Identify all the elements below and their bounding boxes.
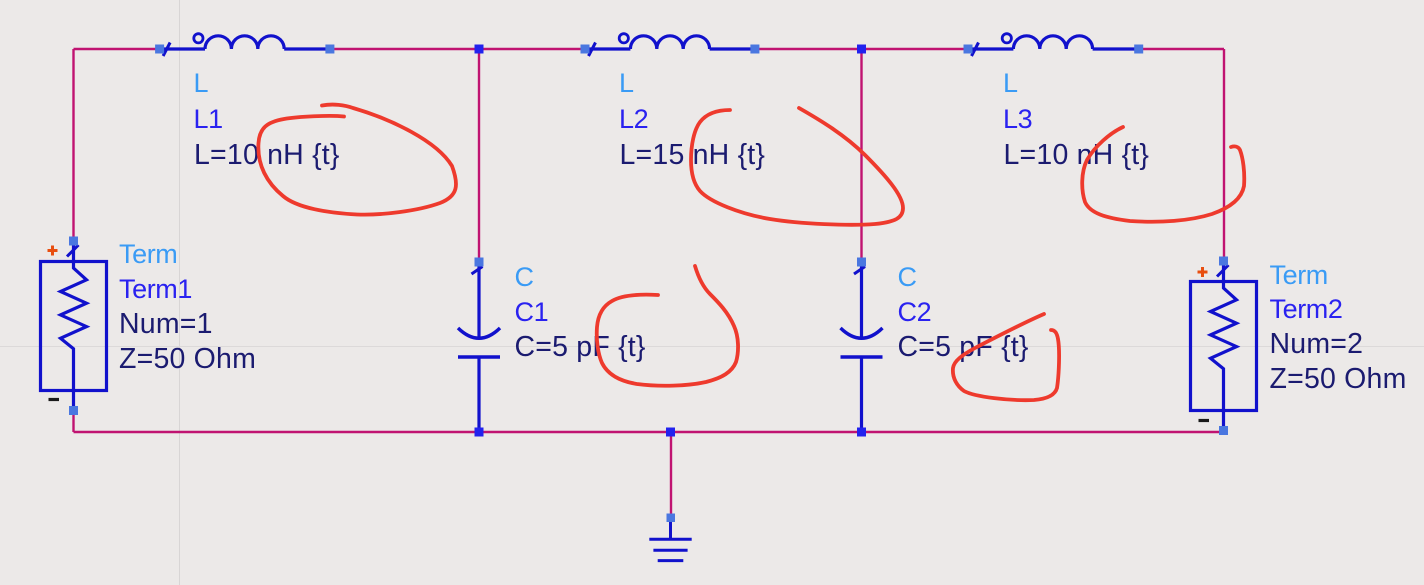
ground	[649, 518, 691, 561]
node junction bottom C2	[857, 428, 866, 437]
inductor L1	[160, 34, 330, 56]
node junction bottom C1	[475, 428, 484, 437]
ground pin square	[667, 514, 676, 523]
Term2 pin 2 square	[1219, 426, 1228, 435]
C2 labels	[898, 262, 1029, 363]
red annotation circle C2 value	[953, 314, 1059, 400]
svg-text:Z=50 Ohm: Z=50 Ohm	[1270, 363, 1407, 395]
wire Term1 bottom stub	[72, 410, 74, 432]
grid line horizontal	[0, 346, 1424, 348]
Term1 minus sign	[49, 398, 60, 401]
red annotation circle C1 value	[597, 266, 738, 386]
L3 labels	[1003, 68, 1149, 171]
node junction bottom ground	[666, 428, 675, 437]
C1 labels	[515, 262, 646, 363]
svg-text:L: L	[1003, 68, 1018, 98]
node junction top C2	[857, 45, 866, 54]
terminal Term1	[41, 241, 107, 411]
svg-text:C=5 pF {t}: C=5 pF {t}	[898, 331, 1029, 363]
C1 pin 1 square	[475, 258, 484, 267]
svg-text:C=5 pF {t}: C=5 pF {t}	[515, 331, 646, 363]
svg-text:L: L	[619, 68, 634, 98]
wire L3 to top-right corner	[1138, 48, 1224, 50]
Term2 plus sign	[1198, 267, 1208, 277]
C2 pin 1 square	[857, 258, 866, 267]
Term1 pin 1 square	[69, 237, 78, 246]
Term1 plus sign	[48, 246, 58, 256]
L2 pin 2 square	[750, 45, 759, 54]
svg-text:C: C	[515, 262, 534, 292]
svg-text:C: C	[898, 262, 917, 292]
Term2 minus sign	[1199, 419, 1210, 422]
svg-text:L1: L1	[194, 104, 223, 134]
svg-text:L3: L3	[1003, 104, 1032, 134]
wire top-left horizontal	[74, 48, 162, 50]
inductor L2	[585, 34, 755, 56]
wire C2 branch	[860, 49, 862, 262]
wire L1 to L2	[329, 48, 586, 50]
red annotation circle L2 value	[691, 108, 903, 225]
svg-text:Term2: Term2	[1270, 294, 1343, 324]
svg-text:L=10 nH {t}: L=10 nH {t}	[1004, 139, 1150, 171]
L2 pin 1 square	[581, 45, 590, 54]
L3 pin 2 square	[1134, 45, 1143, 54]
L3 pin 1 square	[964, 45, 973, 54]
wire L2 to L3	[754, 48, 969, 50]
Term2 labels	[1270, 260, 1407, 395]
Term1 pin 2 square	[69, 406, 78, 415]
wire C1 branch	[478, 49, 480, 262]
wire bottom bus	[74, 431, 1224, 433]
terminal Term2	[1191, 261, 1257, 431]
L2 labels	[619, 68, 765, 171]
L1 labels	[194, 68, 340, 171]
capacitor C1	[458, 262, 500, 432]
svg-text:L=10 nH {t}: L=10 nH {t}	[194, 139, 340, 171]
svg-text:Term: Term	[119, 239, 177, 269]
wire ground stub	[670, 432, 672, 518]
grid line vertical	[179, 0, 181, 585]
Term2 pin 1 square	[1219, 257, 1228, 266]
wire right vertical to Term2	[1223, 49, 1225, 261]
svg-text:L: L	[194, 68, 209, 98]
capacitor C2	[841, 262, 883, 432]
L1 pin 1 square	[155, 45, 164, 54]
svg-text:Term1: Term1	[119, 274, 192, 304]
L1 pin 2 square	[325, 45, 334, 54]
svg-text:L2: L2	[619, 104, 648, 134]
svg-text:Num=2: Num=2	[1270, 328, 1364, 360]
svg-text:Num=1: Num=1	[119, 308, 213, 340]
red annotation circle L3 value	[1082, 127, 1244, 222]
svg-text:Z=50 Ohm: Z=50 Ohm	[119, 343, 256, 375]
node junction top C1	[475, 45, 484, 54]
svg-text:Term: Term	[1270, 260, 1328, 290]
svg-text:C2: C2	[898, 297, 932, 327]
red annotation circle L1 value	[258, 105, 456, 215]
Term1 labels	[119, 239, 256, 375]
wire left vertical to Term1	[72, 49, 74, 241]
svg-text:C1: C1	[515, 297, 549, 327]
inductor L3	[968, 34, 1139, 56]
